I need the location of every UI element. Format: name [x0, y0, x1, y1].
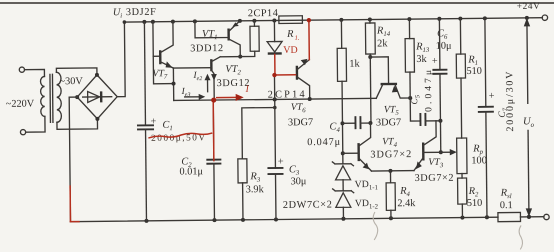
- wire VD to VT6 base and node (red traced): [273, 75, 275, 99]
- transistor VT7: [159, 50, 162, 64]
- svg-text:Uo: Uo: [523, 116, 535, 129]
- sense resistor R in rail: [279, 16, 303, 24]
- svg-text:10μ: 10μ: [436, 41, 452, 52]
- emitter join wire: [371, 170, 413, 172]
- svg-text:0.01μ: 0.01μ: [179, 166, 203, 177]
- svg-text:100: 100: [471, 155, 487, 166]
- wire primary bottom: [26, 116, 45, 132]
- scan artifact squiggles: [373, 212, 378, 240]
- svg-text:3DG7: 3DG7: [288, 117, 313, 128]
- resistor R2 510: [458, 178, 467, 204]
- svg-text:C6: C6: [437, 28, 448, 41]
- svg-text:+: +: [278, 156, 284, 167]
- svg-text:510: 510: [466, 66, 482, 77]
- zener VD1-1 2DW7C: [332, 162, 353, 166]
- bottom rail: [70, 217, 497, 221]
- diode VD 2CP14: [273, 21, 275, 42]
- svg-text:3DD12: 3DD12: [190, 43, 223, 54]
- wire secondary top to bridge: [56, 68, 97, 75]
- svg-text:Ui: Ui: [113, 7, 123, 20]
- resistor R14 2k: [369, 20, 371, 23]
- svg-text:Rsl: Rsl: [500, 188, 512, 201]
- svg-text:VT5: VT5: [384, 104, 400, 117]
- output terminal bottom: [544, 214, 549, 219]
- svg-text:R3: R3: [249, 171, 260, 184]
- svg-text:VT6: VT6: [291, 102, 307, 115]
- red trace VD to VT6 base: [274, 55, 276, 75]
- svg-text:2k: 2k: [377, 38, 388, 49]
- svg-text:C3: C3: [289, 164, 300, 177]
- svg-text:1k: 1k: [349, 59, 360, 70]
- svg-text:3DG7: 3DG7: [376, 117, 401, 128]
- resistor (VT1 bias): [253, 21, 255, 26]
- capacitor C2: [212, 100, 215, 160]
- node branch R3 C3: [274, 99, 276, 107]
- red trace VT6 emitter to rail: [308, 20, 310, 59]
- output terminal top: [542, 15, 547, 20]
- wire R14 to VT4 collector: [369, 57, 372, 123]
- wire main node row: [174, 98, 376, 100]
- transistor VT5: [370, 57, 388, 83]
- svg-text:VT7: VT7: [152, 68, 168, 81]
- transformer core: [49, 74, 52, 122]
- VT1 base wire from rail: [195, 21, 229, 38]
- svg-text:VD1-2: VD1-2: [355, 198, 379, 211]
- svg-text:R4: R4: [399, 186, 410, 199]
- transformer T secondary winding: [56, 72, 61, 122]
- svg-text:2000μ/30V: 2000μ/30V: [504, 71, 516, 132]
- transformer T primary winding: [40, 76, 44, 116]
- wire primary top: [25, 69, 45, 76]
- svg-text:0.1: 0.1: [500, 200, 513, 211]
- svg-text:2CP14: 2CP14: [248, 8, 278, 19]
- zener VD1-2: [333, 189, 354, 193]
- svg-text:0.047μ: 0.047μ: [424, 70, 434, 112]
- capacitor C4 0.047u: [342, 122, 354, 124]
- svg-text:VD1-1: VD1-1: [355, 179, 378, 192]
- svg-text:Ie2: Ie2: [192, 71, 202, 82]
- capacitor C3 30u: [274, 108, 277, 168]
- svg-text:3k: 3k: [416, 54, 427, 65]
- top scan border line: [0, 2, 554, 4]
- svg-text:VT1: VT1: [202, 29, 218, 42]
- capacitor C7 2000u/30V: [484, 18, 487, 106]
- svg-text:R: R: [286, 29, 294, 40]
- resistor R3 3.9k: [242, 108, 276, 159]
- svg-text:2.4k: 2.4k: [397, 198, 416, 209]
- svg-text:C5: C5: [410, 94, 421, 104]
- svg-text:3DG7×2: 3DG7×2: [415, 173, 454, 184]
- wire bridge minus to bottom rail: [69, 97, 78, 222]
- potentiometer Rp 100: [457, 138, 467, 174]
- red trace C2 branch: [212, 100, 215, 161]
- svg-text:3DJ2F: 3DJ2F: [126, 7, 156, 18]
- svg-text:510: 510: [467, 198, 483, 209]
- resistor R1 510: [459, 19, 461, 54]
- transistor VT6: [296, 66, 299, 80]
- wire bridge plus output to top rail: [116, 22, 125, 97]
- resistor R4 2.4k: [389, 171, 391, 183]
- svg-text:30μ: 30μ: [291, 176, 307, 187]
- capacitor C6 10u: [438, 19, 441, 70]
- red trace left return: [69, 186, 71, 221]
- svg-text:3.9k: 3.9k: [246, 184, 265, 195]
- red current arrow I: [217, 96, 239, 98]
- red wavy through C1 label: [149, 133, 212, 138]
- svg-text:C4: C4: [329, 121, 340, 134]
- svg-text:VT4: VT4: [382, 136, 398, 149]
- capacitor C5 0.047u: [410, 98, 420, 121]
- transistor VT4: [357, 143, 360, 161]
- svg-text:R13: R13: [415, 41, 430, 54]
- svg-text:R2: R2: [468, 186, 479, 199]
- red node dot at VT2 emitter: [211, 97, 216, 102]
- AC input terminal bottom: [20, 130, 25, 135]
- svg-text:VT2: VT2: [225, 64, 241, 77]
- svg-text:C1: C1: [162, 120, 172, 133]
- VT7 base loop wire: [153, 22, 174, 84]
- capacitor C1: [144, 22, 145, 125]
- svg-text:+: +: [489, 91, 495, 102]
- svg-text:1.: 1.: [295, 35, 300, 42]
- transistor VT3: [422, 142, 425, 160]
- svg-text:2000μ,50V: 2000μ,50V: [151, 133, 205, 144]
- wire secondary bottom to bridge: [57, 119, 98, 129]
- svg-text:R14: R14: [376, 25, 391, 38]
- Uo measurement line with arrows: [526, 24, 529, 103]
- svg-text:~30V: ~30V: [59, 76, 83, 87]
- bridge rectifier: [77, 75, 117, 119]
- svg-text:~220V: ~220V: [6, 99, 35, 110]
- AC input terminal top: [19, 67, 24, 72]
- transistor VT2 3DG12: [210, 59, 213, 71]
- resistor R13 3k: [408, 19, 410, 38]
- svg-text:+24V: +24V: [517, 2, 540, 12]
- resistor Rsl 0.1 in return rail: [498, 212, 521, 221]
- VT3 base to pot wiper: [423, 151, 453, 153]
- svg-text:VD: VD: [283, 45, 298, 56]
- svg-text:0.047μ: 0.047μ: [307, 137, 341, 148]
- top rail +24V: [124, 18, 542, 22]
- svg-text:VT3: VT3: [428, 157, 444, 170]
- svg-text:Rp: Rp: [472, 143, 483, 156]
- svg-text:2DW7C×2: 2DW7C×2: [283, 199, 332, 211]
- svg-text:3DG7×2: 3DG7×2: [370, 149, 411, 160]
- transistor VT1 3DD12: [227, 29, 230, 41]
- svg-text:+: +: [150, 116, 156, 127]
- resistor 1k: [340, 20, 342, 48]
- svg-text:+: +: [432, 56, 438, 67]
